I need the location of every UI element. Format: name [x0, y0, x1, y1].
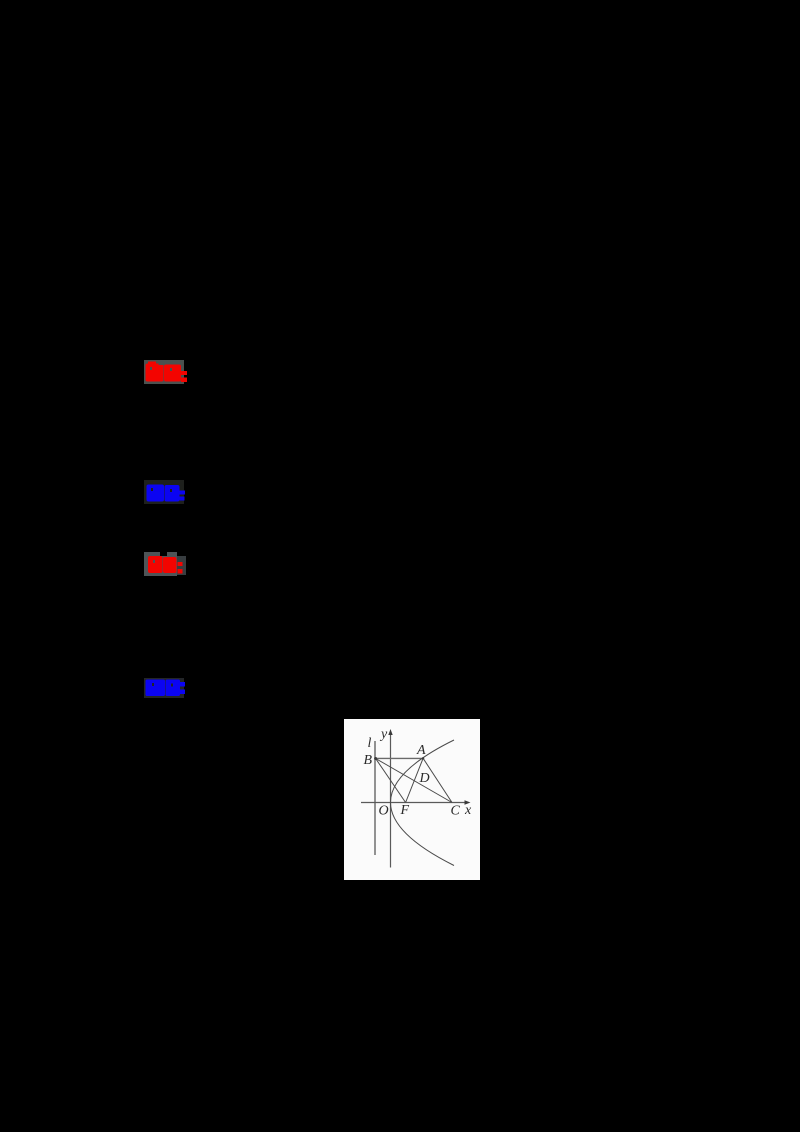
y-axis: [390, 733, 392, 868]
chip 3: red label: [144, 551, 190, 578]
x-axis: [361, 802, 467, 804]
wire BF: [376, 759, 406, 803]
node B: [374, 757, 377, 760]
chip 1: red label: [144, 360, 190, 385]
wire BA: [376, 757, 424, 759]
directrix l: [374, 741, 376, 855]
node A: [422, 757, 424, 759]
y-axis arrowhead: [388, 729, 392, 735]
figure: white box with parabola diagram: [344, 719, 480, 880]
labels: [364, 727, 473, 819]
chip 4: blue label: [144, 677, 190, 701]
parabola: [391, 740, 455, 866]
chip 2: blue label: [144, 480, 190, 505]
wire BC: [376, 759, 452, 803]
svg-text:y: y: [379, 727, 388, 742]
wire AF: [406, 758, 424, 802]
svg-text:x: x: [464, 803, 472, 818]
svg-text:C: C: [451, 804, 461, 819]
svg-text:D: D: [419, 771, 430, 786]
svg-text:A: A: [416, 743, 426, 758]
svg-text:O: O: [379, 804, 389, 819]
wire AC: [423, 758, 452, 802]
svg-text:B: B: [364, 753, 373, 768]
svg-text:F: F: [400, 803, 410, 818]
svg-text:l: l: [368, 736, 372, 751]
x-axis arrowhead: [465, 800, 471, 804]
